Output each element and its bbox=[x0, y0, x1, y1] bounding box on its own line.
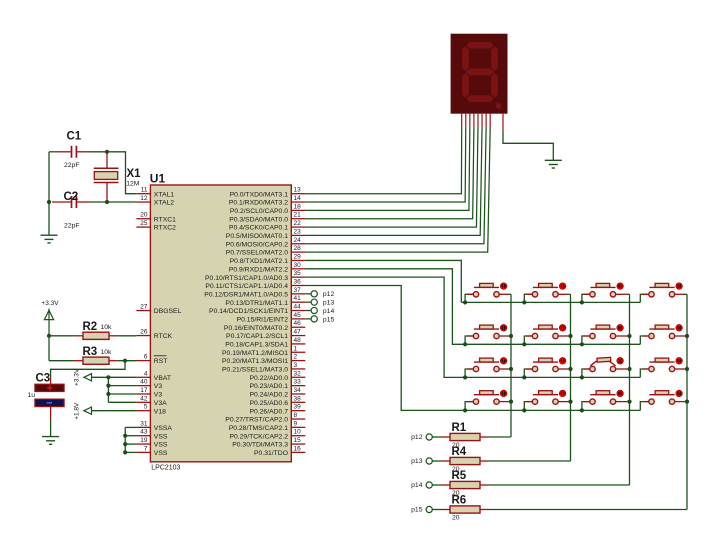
svg-text:8: 8 bbox=[294, 412, 298, 419]
wire left rail bbox=[48, 152, 50, 235]
button keypad row 1 col 1 bbox=[465, 283, 511, 303]
node VSS19 junction bbox=[123, 442, 127, 446]
svg-text:P0.29/TCK/CAP2.2: P0.29/TCK/CAP2.2 bbox=[229, 433, 288, 440]
wire pin 7 VSS bbox=[125, 451, 136, 453]
svg-text:V3A: V3A bbox=[154, 400, 167, 407]
wire C3 to ground bbox=[50, 407, 52, 420]
svg-text:R3: R3 bbox=[83, 346, 98, 358]
svg-text:R4: R4 bbox=[452, 446, 467, 458]
display segment pin 6 stub bbox=[481, 114, 483, 128]
svg-text:2: 2 bbox=[294, 354, 298, 361]
pin 48 P0.18/CAP1.3/SDA1 bbox=[291, 343, 305, 345]
button keypad row 2 col 1 bbox=[465, 325, 511, 345]
resistor R3 bbox=[49, 360, 73, 362]
svg-text:P0.18/CAP1.3/SDA1: P0.18/CAP1.3/SDA1 bbox=[225, 342, 288, 349]
svg-text:48: 48 bbox=[294, 337, 302, 344]
button keypad row 3 col 3 pressed bbox=[582, 357, 630, 377]
svg-text:22: 22 bbox=[294, 220, 302, 227]
crystal X1 bbox=[94, 167, 119, 169]
button keypad row 1 col 2 bbox=[524, 283, 570, 303]
wire VSS chain vertical bbox=[124, 427, 126, 452]
pin 9 P0.28/TMS/CAP2.1 bbox=[291, 426, 305, 428]
pin 44 P0.14/DCD1/SCK1/EINT1 bbox=[291, 310, 305, 312]
node row 3 hook junction col 3 bbox=[580, 375, 584, 379]
svg-text:P0.20/MAT1.3/MOSI1: P0.20/MAT1.3/MOSI1 bbox=[222, 358, 288, 365]
pin 1 P0.19/MAT1.2/MISO1 bbox=[291, 351, 305, 353]
wire keypad column 4 vertical bbox=[686, 294, 688, 509]
svg-text:43: 43 bbox=[140, 429, 148, 436]
IC U1 LPC2103 microcontroller body bbox=[150, 185, 291, 462]
wire XTAL1 node to pin 11 bbox=[107, 152, 136, 194]
node column 4 row 4 junction bbox=[685, 400, 689, 404]
svg-text:P0.10/RTS1/CAP1.0/AD0.3: P0.10/RTS1/CAP1.0/AD0.3 bbox=[205, 275, 288, 282]
pin 28 P0.7/SSEL0/MAT2.0 bbox=[291, 251, 305, 253]
svg-text:P0.1/RXD0/MAT3.2: P0.1/RXD0/MAT3.2 bbox=[229, 200, 288, 207]
resistor R5 bbox=[432, 484, 441, 486]
svg-text:10k: 10k bbox=[101, 349, 113, 356]
pin 4 VBAT bbox=[136, 376, 150, 378]
pin 38 P0.25/AD0.6 bbox=[291, 401, 305, 403]
svg-text:p15: p15 bbox=[411, 506, 423, 513]
node column 4 row 2 junction bbox=[685, 334, 689, 338]
svg-text:P0.25/AD0.6: P0.25/AD0.6 bbox=[249, 400, 288, 407]
pin 37 P0.12/DSR1/MAT1.0/AD0.5 bbox=[291, 293, 305, 295]
node row 3 hook junction col 2 bbox=[522, 375, 526, 379]
wire keypad row 2 bus bbox=[465, 343, 640, 345]
svg-text:P0.27/TRST/CAP2.0: P0.27/TRST/CAP2.0 bbox=[225, 417, 288, 424]
display segment pin 7 stub bbox=[485, 114, 487, 128]
resistor R4 bbox=[432, 460, 441, 462]
svg-text:P0.6/MOSI0/CAP0.2: P0.6/MOSI0/CAP0.2 bbox=[226, 241, 289, 248]
svg-text:R6: R6 bbox=[452, 495, 467, 507]
pin 14 P0.1/RXD0/MAT3.2 bbox=[291, 201, 305, 203]
wire keypad column 3 vertical bbox=[629, 294, 631, 485]
svg-text:XTAL2: XTAL2 bbox=[154, 200, 174, 207]
pin 30 P0.9/RXD1/MAT2.2 bbox=[291, 268, 305, 270]
svg-text:47: 47 bbox=[294, 329, 302, 336]
svg-text:RTXC1: RTXC1 bbox=[154, 216, 176, 223]
node row 2 hook junction col 1 bbox=[463, 342, 467, 346]
node row 1 hook junction col 3 bbox=[580, 300, 584, 304]
wire C1 left to rail bbox=[49, 151, 58, 153]
svg-text:36: 36 bbox=[294, 278, 302, 285]
wire R5 to column 3 bbox=[489, 484, 630, 486]
pin 31 VSSA bbox=[136, 426, 150, 428]
pin 26 RTCK bbox=[136, 335, 150, 337]
node column 3 row 3 junction bbox=[627, 367, 631, 371]
node rail C2 junction bbox=[47, 200, 51, 204]
svg-text:19: 19 bbox=[140, 437, 148, 444]
svg-text:p12: p12 bbox=[323, 291, 335, 298]
svg-text:25: 25 bbox=[140, 220, 148, 227]
display segment pin 5 stub bbox=[477, 114, 479, 128]
svg-text:XTAL1: XTAL1 bbox=[154, 191, 174, 198]
svg-text:VSS: VSS bbox=[154, 450, 168, 457]
node VBAT junction bbox=[106, 375, 110, 379]
svg-text:29: 29 bbox=[294, 253, 302, 260]
pin 33 P0.23/AD0.1 bbox=[291, 385, 305, 387]
button keypad row 2 col 3 bbox=[582, 325, 630, 345]
svg-text:VBAT: VBAT bbox=[154, 375, 171, 382]
pin 39 P0.26/AD0.7 bbox=[291, 410, 305, 412]
wire display pin 8 to U1 row 8 bbox=[305, 128, 490, 253]
svg-text:20: 20 bbox=[140, 212, 148, 219]
svg-text:9: 9 bbox=[294, 420, 298, 427]
node column 2 row 2 junction bbox=[568, 334, 572, 338]
button keypad row 4 col 1 bbox=[465, 390, 511, 410]
svg-text:V3: V3 bbox=[154, 383, 163, 390]
svg-text:17: 17 bbox=[140, 387, 148, 394]
wire rail down to R3 bbox=[48, 336, 50, 361]
svg-text:3: 3 bbox=[294, 362, 298, 369]
resistor R1 bbox=[432, 436, 441, 438]
svg-text:VSS: VSS bbox=[154, 433, 168, 440]
wire XTAL2 node to pin 12 bbox=[107, 201, 136, 203]
node pin17 junction bbox=[106, 392, 110, 396]
button keypad row 3 col 4 bbox=[640, 358, 687, 378]
7-segment display decimal point bbox=[496, 103, 502, 109]
wire display pin 1 to U1 row 1 bbox=[305, 128, 461, 194]
svg-text:RTCK: RTCK bbox=[154, 333, 173, 340]
node VSS7 junction bbox=[123, 450, 127, 454]
svg-text:35: 35 bbox=[294, 270, 302, 277]
pin 23 P0.5/MISO0/MAT0.1 bbox=[291, 234, 305, 236]
node p14 terminal at U1 bbox=[305, 310, 311, 312]
node column 2 row 4 junction bbox=[568, 400, 572, 404]
svg-text:P0.8/TXD1/MAT2.1: P0.8/TXD1/MAT2.1 bbox=[230, 258, 289, 265]
button keypad row 3 col 1 bbox=[465, 358, 511, 378]
pin 13 P0.0/TXD0/MAT3.1 bbox=[291, 193, 305, 195]
node column 1 row 3 junction bbox=[509, 367, 513, 371]
svg-text:X1: X1 bbox=[127, 168, 142, 180]
svg-text:45: 45 bbox=[294, 312, 302, 319]
pin 45 P0.15/RI1/EINT2 bbox=[291, 318, 305, 320]
wire U1 pin row 10 to keypad row 2 bbox=[305, 269, 465, 344]
wire display pin 2 to U1 row 2 bbox=[305, 128, 465, 203]
pin 29 P0.8/TXD1/MAT2.1 bbox=[291, 259, 305, 261]
svg-text:p12: p12 bbox=[411, 434, 423, 441]
pin 5 V18 bbox=[136, 410, 150, 412]
svg-text:R5: R5 bbox=[452, 470, 467, 482]
wire pin 42 to rail bbox=[108, 401, 136, 403]
wire C1 right to node bbox=[90, 151, 107, 153]
svg-text:10: 10 bbox=[294, 429, 302, 436]
svg-text:LPC2103: LPC2103 bbox=[151, 464, 180, 471]
node row 1 hook junction col 2 bbox=[522, 300, 526, 304]
svg-text:18: 18 bbox=[294, 203, 302, 210]
svg-text:28: 28 bbox=[294, 245, 302, 252]
svg-text:27: 27 bbox=[140, 304, 148, 311]
node row 1 hook junction col 1 bbox=[463, 300, 467, 304]
svg-text:41: 41 bbox=[294, 295, 302, 302]
node pin40 junction bbox=[106, 384, 110, 388]
node p15 terminal at U1 bbox=[305, 318, 311, 320]
svg-text:P0.17/CAP1.2/SCL1: P0.17/CAP1.2/SCL1 bbox=[226, 333, 288, 340]
svg-text:31: 31 bbox=[140, 420, 148, 427]
svg-text:42: 42 bbox=[140, 395, 148, 402]
svg-text:32: 32 bbox=[294, 370, 302, 377]
svg-text:P0.4/SCK0/CAP0.1: P0.4/SCK0/CAP0.1 bbox=[229, 225, 288, 232]
power +3.3V symbol bbox=[44, 309, 53, 336]
svg-text:6: 6 bbox=[144, 354, 148, 361]
wire keypad row 3 bus bbox=[465, 376, 640, 378]
power +1.8V flag at V18 bbox=[84, 407, 92, 414]
svg-text:P0.26/AD0.7: P0.26/AD0.7 bbox=[249, 408, 288, 415]
svg-text:P0.30/TDI/MAT3.3: P0.30/TDI/MAT3.3 bbox=[232, 442, 288, 449]
wire R2 to pin 26 bbox=[117, 335, 136, 337]
display segment pin 8 stub bbox=[489, 114, 491, 128]
svg-text:V3: V3 bbox=[154, 392, 163, 399]
svg-text:P0.0/TXD0/MAT3.1: P0.0/TXD0/MAT3.1 bbox=[230, 191, 289, 198]
node p12 terminal at U1 bbox=[305, 293, 311, 295]
display segment pin 1 stub bbox=[461, 114, 463, 128]
svg-text:22pF: 22pF bbox=[64, 222, 80, 229]
wire display pin 5 to U1 row 5 bbox=[305, 128, 478, 228]
svg-text:P0.2/SCL0/CAP0.0: P0.2/SCL0/CAP0.0 bbox=[230, 208, 288, 215]
pin 6 RST bbox=[136, 360, 150, 362]
svg-text:+1.8V: +1.8V bbox=[73, 402, 80, 420]
pin 15 P0.30/TDI/MAT3.3 bbox=[291, 443, 305, 445]
svg-text:46: 46 bbox=[294, 320, 302, 327]
svg-text:P0.16/EINT0/MAT0.2: P0.16/EINT0/MAT0.2 bbox=[224, 325, 288, 332]
display segment pin 4 stub bbox=[473, 114, 475, 128]
pin 35 P0.10/RTS1/CAP1.0/AD0.3 bbox=[291, 276, 305, 278]
pin 36 P0.11/CTS1/CAP1.1/AD0.4 bbox=[291, 284, 305, 286]
pin 25 RTXC2 bbox=[136, 226, 150, 228]
wire keypad column 2 vertical bbox=[570, 294, 572, 461]
wire display pin 6 to U1 row 6 bbox=[305, 128, 482, 236]
wire junction down to C3 bbox=[51, 361, 125, 378]
wire pin 17 to rail bbox=[108, 393, 136, 395]
svg-text:21: 21 bbox=[294, 212, 302, 219]
node p13 terminal at U1 bbox=[305, 301, 311, 303]
svg-text:U1: U1 bbox=[150, 171, 166, 185]
capacitor C1 bbox=[58, 151, 71, 153]
button keypad row 4 col 2 bbox=[524, 390, 570, 410]
node column 3 row 2 junction bbox=[627, 334, 631, 338]
svg-text:P0.11/CTS1/CAP1.1/AD0.4: P0.11/CTS1/CAP1.1/AD0.4 bbox=[205, 283, 288, 290]
svg-text:C1: C1 bbox=[67, 131, 82, 143]
pin 2 P0.20/MAT1.3/MOSI1 bbox=[291, 360, 305, 362]
svg-text:26: 26 bbox=[140, 329, 148, 336]
capacitor C3 polarized bbox=[35, 384, 64, 391]
wire pin 43 VSS bbox=[125, 435, 136, 437]
pin 11 XTAL1 bbox=[136, 193, 150, 195]
svg-text:39: 39 bbox=[294, 404, 302, 411]
wire keypad column 1 vertical bbox=[510, 294, 512, 437]
svg-text:R2: R2 bbox=[83, 321, 98, 333]
node column 1 row 2 junction bbox=[509, 334, 513, 338]
svg-text:P0.21/SSEL1/MAT3.0: P0.21/SSEL1/MAT3.0 bbox=[222, 367, 288, 374]
svg-text:P0.22/AD0.0: P0.22/AD0.0 bbox=[249, 375, 288, 382]
svg-text:P0.12/DSR1/MAT1.0/AD0.5: P0.12/DSR1/MAT1.0/AD0.5 bbox=[204, 291, 288, 298]
node row 4 hook junction col 3 bbox=[580, 408, 584, 412]
button keypad row 1 col 3 bbox=[582, 283, 630, 303]
resistor R2 bbox=[49, 335, 73, 337]
svg-text:P0.7/SSEL0/MAT2.0: P0.7/SSEL0/MAT2.0 bbox=[226, 250, 288, 257]
pin 32 P0.22/AD0.0 bbox=[291, 376, 305, 378]
pin 27 DBGSEL bbox=[136, 310, 150, 312]
svg-text:P0.31/TDO: P0.31/TDO bbox=[254, 450, 288, 457]
svg-text:10k: 10k bbox=[101, 324, 113, 331]
svg-text:12: 12 bbox=[140, 195, 148, 202]
button keypad row 2 col 2 bbox=[524, 325, 570, 345]
node row 4 hook junction col 2 bbox=[522, 408, 526, 412]
svg-text:p13: p13 bbox=[411, 458, 423, 465]
pin 12 XTAL2 bbox=[136, 201, 150, 203]
svg-text:VSS: VSS bbox=[154, 442, 168, 449]
wire R4 to column 2 bbox=[489, 460, 571, 462]
wire pin 19 VSS bbox=[125, 443, 136, 445]
wire V3 rail vertical bbox=[107, 377, 109, 402]
svg-text:p13: p13 bbox=[323, 300, 335, 307]
svg-text:20: 20 bbox=[452, 515, 460, 522]
svg-text:P0.23/AD0.1: P0.23/AD0.1 bbox=[249, 383, 288, 390]
svg-text:37: 37 bbox=[294, 287, 302, 294]
node column 2 row 3 junction bbox=[568, 367, 572, 371]
svg-text:5: 5 bbox=[144, 404, 148, 411]
wire display pin 3 to U1 row 3 bbox=[305, 128, 470, 211]
wire R1 to column 1 bbox=[489, 436, 512, 438]
wire keypad row 4 bus bbox=[465, 409, 640, 411]
display segment pin 3 stub bbox=[469, 114, 471, 128]
svg-text:33: 33 bbox=[294, 379, 302, 386]
svg-text:7: 7 bbox=[144, 445, 148, 452]
pin 34 P0.24/AD0.2 bbox=[291, 393, 305, 395]
pin 19 VSS bbox=[136, 443, 150, 445]
svg-text:P0.15/RI1/EINT2: P0.15/RI1/EINT2 bbox=[237, 316, 289, 323]
svg-text:P0.28/TMS/CAP2.1: P0.28/TMS/CAP2.1 bbox=[229, 425, 289, 432]
node row 2 hook junction col 3 bbox=[580, 342, 584, 346]
pin 40 V3 bbox=[136, 385, 150, 387]
display segment pin 2 stub bbox=[465, 114, 467, 128]
pin 42 V3A bbox=[136, 401, 150, 403]
svg-text:p14: p14 bbox=[411, 482, 423, 489]
7-segment display body bbox=[451, 34, 508, 114]
svg-text:11: 11 bbox=[141, 187, 148, 194]
node XTAL2 junction bbox=[105, 200, 109, 204]
capacitor C2 bbox=[52, 201, 71, 203]
svg-text:+3.3V: +3.3V bbox=[73, 368, 80, 386]
wire keypad row 1 bus bbox=[461, 301, 640, 303]
ground display common bbox=[545, 160, 562, 168]
node R2 rail junction bbox=[47, 334, 51, 338]
node VSS43 junction bbox=[123, 434, 127, 438]
wire R3 to pin 6 bbox=[117, 360, 136, 362]
pin 18 P0.2/SCL0/CAP0.0 bbox=[291, 209, 305, 211]
node row 2 hook junction col 2 bbox=[522, 342, 526, 346]
button keypad row 3 col 2 bbox=[524, 358, 570, 378]
wire display common to ground bbox=[503, 131, 553, 160]
svg-text:16: 16 bbox=[294, 445, 302, 452]
svg-text:+3.3V: +3.3V bbox=[41, 300, 59, 307]
svg-text:15: 15 bbox=[294, 437, 302, 444]
svg-text:C3: C3 bbox=[36, 373, 51, 385]
wire flag to pin 4 bbox=[92, 376, 137, 378]
node column 1 row 4 junction bbox=[509, 400, 513, 404]
pin 46 P0.16/EINT0/MAT0.2 bbox=[291, 326, 305, 328]
svg-text:p14: p14 bbox=[323, 308, 335, 315]
svg-text:P0.13/DTR1/MAT1.1: P0.13/DTR1/MAT1.1 bbox=[225, 300, 288, 307]
ground below C3 bbox=[42, 437, 59, 445]
pin 21 P0.3/SDA0/MAT0.0 bbox=[291, 218, 305, 220]
svg-text:V18: V18 bbox=[154, 408, 166, 415]
pin 10 P0.29/TCK/CAP2.2 bbox=[291, 435, 305, 437]
display common pin stub bbox=[502, 114, 504, 131]
pin 7 VSS bbox=[136, 451, 150, 453]
svg-text:VSSA: VSSA bbox=[154, 425, 173, 432]
wire flag to pin 5 bbox=[92, 410, 137, 412]
power +3.3V flag at VBAT bbox=[84, 374, 92, 381]
pin 43 VSS bbox=[136, 435, 150, 437]
button keypad row 4 col 4 bbox=[640, 390, 687, 410]
wire pin 40 to rail bbox=[108, 385, 136, 387]
svg-text:40: 40 bbox=[140, 379, 148, 386]
resistor R6 bbox=[432, 509, 441, 511]
7-segment display digit 8 bbox=[462, 42, 498, 102]
svg-text:38: 38 bbox=[294, 395, 302, 402]
pin 47 P0.17/CAP1.2/SCL1 bbox=[291, 335, 305, 337]
svg-text:P0.9/RXD1/MAT2.2: P0.9/RXD1/MAT2.2 bbox=[229, 266, 288, 273]
svg-text:P0.3/SDA0/MAT0.0: P0.3/SDA0/MAT0.0 bbox=[229, 216, 288, 223]
button keypad row 2 col 4 bbox=[640, 325, 687, 345]
wire C2 right to node bbox=[90, 201, 107, 203]
node row 3 hook junction col 1 bbox=[463, 375, 467, 379]
svg-text:34: 34 bbox=[294, 387, 302, 394]
svg-text:44: 44 bbox=[294, 304, 302, 311]
svg-text:22pF: 22pF bbox=[64, 162, 80, 169]
wire R6 to column 4 bbox=[489, 509, 688, 511]
pin 41 P0.13/DTR1/MAT1.1 bbox=[291, 301, 305, 303]
pin 17 V3 bbox=[136, 393, 150, 395]
svg-text:13: 13 bbox=[294, 187, 302, 194]
svg-text:30: 30 bbox=[294, 262, 302, 269]
svg-text:C2: C2 bbox=[64, 191, 79, 203]
svg-text:p15: p15 bbox=[323, 316, 335, 323]
pin 20 RTXC1 bbox=[136, 218, 150, 220]
pin 24 P0.6/MOSI0/CAP0.2 bbox=[291, 243, 305, 245]
svg-text:R1: R1 bbox=[452, 422, 467, 434]
wire U1 pin row 9 to keypad row 1 bbox=[305, 260, 461, 302]
node row 4 hook junction col 1 bbox=[463, 408, 467, 412]
node R3 RST junction bbox=[123, 359, 127, 363]
svg-text:RTXC2: RTXC2 bbox=[154, 225, 176, 232]
svg-text:DBGSEL: DBGSEL bbox=[154, 308, 182, 315]
pin 16 P0.31/TDO bbox=[291, 451, 305, 453]
svg-text:P0.14/DCD1/SCK1/EINT1: P0.14/DCD1/SCK1/EINT1 bbox=[209, 308, 288, 315]
wire U1 pin row 11 to keypad row 3 bbox=[305, 277, 465, 377]
wire U1 pin row 12 to keypad row 4 bbox=[305, 285, 465, 410]
pin 22 P0.4/SCK0/CAP0.1 bbox=[291, 226, 305, 228]
node column 3 row 4 junction bbox=[627, 400, 631, 404]
svg-text:1: 1 bbox=[294, 345, 298, 352]
svg-text:P0.5/MISO0/MAT0.1: P0.5/MISO0/MAT0.1 bbox=[226, 233, 288, 240]
node column 4 row 3 junction bbox=[685, 367, 689, 371]
svg-text:P0.19/MAT1.2/MISO1: P0.19/MAT1.2/MISO1 bbox=[222, 350, 288, 357]
pin 8 P0.27/TRST/CAP2.0 bbox=[291, 418, 305, 420]
svg-text:RST: RST bbox=[154, 358, 168, 365]
wire pin 31 VSSA bbox=[125, 426, 136, 428]
ground below crystal rail bbox=[41, 235, 58, 243]
svg-text:P0.24/AD0.2: P0.24/AD0.2 bbox=[249, 392, 288, 399]
svg-text:12M: 12M bbox=[126, 181, 140, 188]
node XTAL1 junction bbox=[105, 150, 109, 154]
button keypad row 4 col 3 bbox=[582, 390, 630, 410]
pin 3 P0.21/SSEL1/MAT3.0 bbox=[291, 368, 305, 370]
wire display pin 4 to U1 row 4 bbox=[305, 128, 474, 219]
svg-text:4: 4 bbox=[144, 370, 148, 377]
wire display pin 7 to U1 row 7 bbox=[305, 128, 486, 244]
